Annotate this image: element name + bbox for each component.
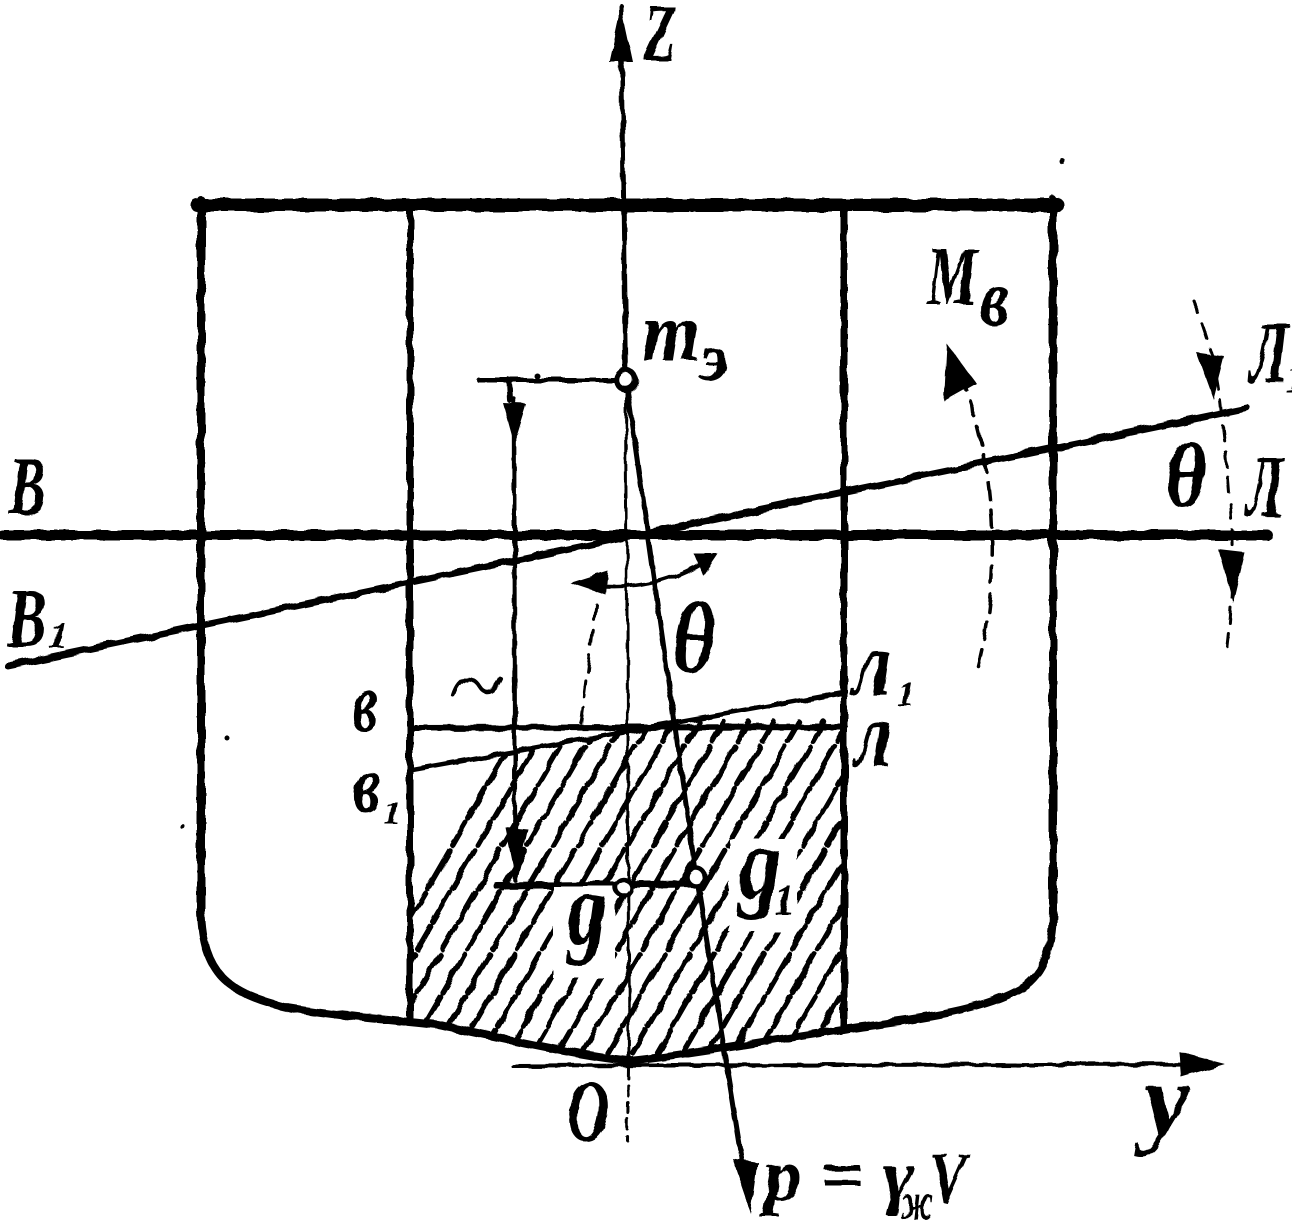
- bottom bar through g: [497, 884, 700, 886]
- svg-text:1: 1: [48, 612, 68, 657]
- svg-text:1: 1: [1285, 356, 1292, 402]
- Z axis below keel: [627, 1068, 628, 1140]
- g1 circle: [687, 868, 705, 886]
- white halo for g1 label: [729, 839, 797, 932]
- force arrowhead upper: [503, 403, 526, 443]
- y axis: [513, 1064, 1212, 1066]
- tank inclined waterline v1-l1: [411, 692, 845, 770]
- Z axis lower (through hull to keel): [626, 390, 629, 1062]
- svg-text:Л: Л: [1244, 439, 1286, 536]
- white halo for g label: [553, 886, 615, 978]
- theta arc arrow left: [570, 571, 608, 595]
- hatched liquid region: [288, 722, 1074, 1130]
- svg-text:1: 1: [897, 674, 915, 714]
- svg-text:1: 1: [774, 878, 795, 924]
- tank waterline v-l horizontal: [411, 727, 845, 728]
- svg-text:θ: θ: [1166, 424, 1206, 526]
- bulkhead right: [841, 206, 848, 1029]
- svg-text:1: 1: [384, 795, 401, 832]
- bar tick: [509, 380, 510, 400]
- svg-text:Z: Z: [643, 0, 676, 78]
- metacenter m0 circle: [617, 371, 636, 390]
- Z axis upper: [621, 6, 626, 380]
- svg-text:m: m: [642, 286, 700, 379]
- M_v arrowhead: [944, 344, 976, 401]
- new weight line m0-g1: [627, 388, 695, 868]
- svg-text:θ: θ: [672, 582, 716, 695]
- speck: [226, 737, 231, 742]
- hull top deck line: [197, 199, 1058, 212]
- inclined waterline B1-L1: [8, 408, 1247, 666]
- svg-text:э: э: [698, 319, 728, 395]
- svg-text:в: в: [354, 735, 380, 831]
- hull outline (sides and bottom): [201, 200, 1053, 1061]
- waterline B-L horizontal: [2, 530, 1268, 540]
- right arc arrowhead lower: [1219, 550, 1245, 603]
- svg-text:M: M: [926, 230, 980, 323]
- svg-text:g: g: [565, 852, 607, 967]
- dashed leader below arc: [580, 604, 596, 732]
- g circle: [615, 879, 631, 895]
- speck: [1060, 159, 1066, 165]
- svg-text:p = γ: p = γ: [758, 1135, 914, 1217]
- metacenter bar: [479, 378, 618, 383]
- p arrowhead: [732, 1158, 758, 1214]
- old weight force line: [514, 399, 515, 880]
- bulkhead left: [407, 206, 414, 1022]
- svg-text:V: V: [929, 1138, 971, 1218]
- Z axis arrowhead: [609, 6, 633, 62]
- right rotation dashed arc: [1193, 300, 1232, 646]
- svg-text:В: В: [8, 440, 46, 533]
- M_v moment dashed arc: [953, 358, 992, 666]
- theta arc arrow right: [694, 554, 718, 576]
- theta arc double arrow: [578, 561, 704, 587]
- svg-text:в: в: [980, 255, 1010, 343]
- force arrowhead lower: [505, 827, 528, 881]
- liquid squiggle: [453, 679, 501, 695]
- svg-text:л: л: [851, 684, 892, 786]
- svg-text:O: O: [567, 1063, 609, 1160]
- y axis arrowhead: [1179, 1052, 1225, 1077]
- speck: [181, 825, 186, 830]
- svg-text:В: В: [6, 572, 47, 665]
- right arc arrowhead upper: [1196, 352, 1224, 399]
- new weight line g1-p: [698, 886, 748, 1198]
- speck: [533, 372, 539, 378]
